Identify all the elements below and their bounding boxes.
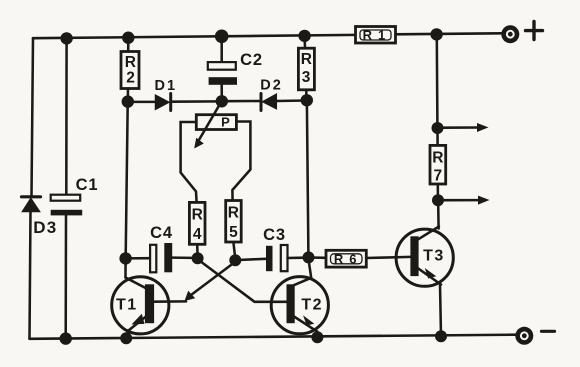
node T1 emitter rail xyxy=(120,332,132,344)
svg-text:R 6: R 6 xyxy=(334,252,358,267)
resistor R6 xyxy=(326,250,366,267)
wire C2 stem upper xyxy=(220,36,223,62)
wire D1 to C2 node xyxy=(172,100,222,103)
svg-text:7: 7 xyxy=(433,168,442,185)
resistor R5 xyxy=(226,201,242,243)
svg-text:T2: T2 xyxy=(301,297,323,314)
wire T1 collector up xyxy=(124,259,127,278)
svg-text:4: 4 xyxy=(193,226,202,243)
svg-text:R: R xyxy=(301,51,312,68)
node C2 bottom xyxy=(216,95,228,107)
wire node to T3 collector xyxy=(437,204,440,229)
wire T2 collector node to R6 xyxy=(309,256,327,259)
node output 1 xyxy=(432,122,444,134)
wire node B to C3 xyxy=(235,259,266,260)
node T1 collector top xyxy=(119,252,131,264)
capacitor C3 xyxy=(266,245,288,271)
diode D3 xyxy=(22,197,41,212)
wire node to R7 xyxy=(436,131,439,145)
diode D1 xyxy=(156,94,171,111)
wire T2 collector up xyxy=(309,260,312,278)
svg-text:C2: C2 xyxy=(240,51,263,69)
node output 2 xyxy=(432,194,444,206)
terminal plus xyxy=(501,25,519,43)
node R3 bottom xyxy=(301,94,313,106)
node C2 top rail xyxy=(215,30,229,44)
node top of C1 branch xyxy=(60,32,72,44)
svg-text:D3: D3 xyxy=(33,218,57,237)
node R3 top rail xyxy=(298,30,310,42)
svg-text:5: 5 xyxy=(229,224,238,241)
arrow output 1 xyxy=(444,123,489,132)
wire C2 node to D2 xyxy=(222,100,261,103)
node B xyxy=(229,254,241,266)
node R2 bottom xyxy=(122,95,134,107)
wire cross-coupling node A to T2 base xyxy=(200,261,286,302)
svg-text:R: R xyxy=(228,205,239,222)
wire R3 node down to T2 collector node xyxy=(307,103,309,254)
wire T1 collector node to C4 xyxy=(126,257,150,260)
wire C4 to node A xyxy=(172,256,192,259)
wire R4 bottom xyxy=(196,244,199,254)
svg-text:C1: C1 xyxy=(76,176,99,194)
svg-text:T1: T1 xyxy=(116,297,138,314)
svg-text:P: P xyxy=(221,115,230,130)
capacitor C1 xyxy=(51,195,82,216)
capacitor C2 xyxy=(208,62,237,85)
potentiometer P xyxy=(196,115,236,130)
resistor R1 xyxy=(356,27,396,44)
svg-text:2: 2 xyxy=(126,70,135,87)
wire cross-coupling node B to T1 base xyxy=(185,264,234,302)
wire R2 node to D1 xyxy=(128,101,156,104)
node T3 emitter rail xyxy=(435,330,447,342)
wire R7 bottom xyxy=(437,184,440,196)
resistor R7 xyxy=(430,145,446,184)
terminal minus xyxy=(515,327,533,345)
transistor T3 xyxy=(396,227,453,287)
minus sign xyxy=(542,330,555,333)
node R1 right xyxy=(430,28,442,40)
resistor R2 xyxy=(121,52,139,89)
wire C1 branch upper xyxy=(65,38,68,194)
wire bottom rail xyxy=(30,335,516,339)
wire pot left lead xyxy=(181,122,197,202)
wire pot right lead xyxy=(232,122,250,202)
wire R3 bottom xyxy=(305,90,308,101)
transistor T1 xyxy=(112,277,186,339)
arrow output 2 xyxy=(444,196,490,205)
wire R5 bottom xyxy=(233,242,235,256)
wire R2 top xyxy=(127,38,130,52)
capacitor C4 xyxy=(150,243,172,272)
resistor R3 xyxy=(298,48,314,90)
svg-text:C3: C3 xyxy=(263,226,286,244)
node A xyxy=(192,252,204,264)
resistor R4 xyxy=(189,202,205,244)
wire left edge lower xyxy=(30,212,31,339)
svg-text:C4: C4 xyxy=(150,224,173,242)
transistor T2 xyxy=(271,277,328,338)
node T2 collector xyxy=(303,251,315,263)
pot wiper arrow xyxy=(194,101,222,149)
wire left edge upper xyxy=(32,38,34,196)
svg-text:R 1: R 1 xyxy=(363,28,387,43)
svg-text:3: 3 xyxy=(302,69,311,86)
wire R2 bottom xyxy=(127,89,130,102)
svg-text:D1: D1 xyxy=(155,78,178,94)
diode D2 xyxy=(261,94,276,111)
node C1 bottom rail xyxy=(59,332,71,344)
svg-text:D2: D2 xyxy=(260,78,283,94)
svg-text:R: R xyxy=(192,207,203,224)
svg-text:R: R xyxy=(125,54,136,71)
wire C1 branch lower xyxy=(64,215,67,338)
wire C2 stem lower xyxy=(220,85,223,97)
node T2 emitter rail xyxy=(311,331,323,343)
svg-text:T3: T3 xyxy=(423,248,445,265)
plus sign xyxy=(526,22,543,40)
wire R6 to T3 base xyxy=(366,257,410,258)
wire D2 to R3 node xyxy=(276,99,307,102)
node R2 top rail xyxy=(122,32,134,44)
wire right column upper xyxy=(436,37,439,124)
wire T3 emitter down xyxy=(440,284,441,336)
svg-text:R: R xyxy=(432,150,443,167)
wire top rail right segment xyxy=(395,33,502,34)
wire C3 to T2 collector node xyxy=(288,256,304,259)
wire top rail left segment xyxy=(33,35,356,38)
wire R3 top xyxy=(303,38,306,48)
wire R2 node down to T1 collector node xyxy=(126,104,128,255)
